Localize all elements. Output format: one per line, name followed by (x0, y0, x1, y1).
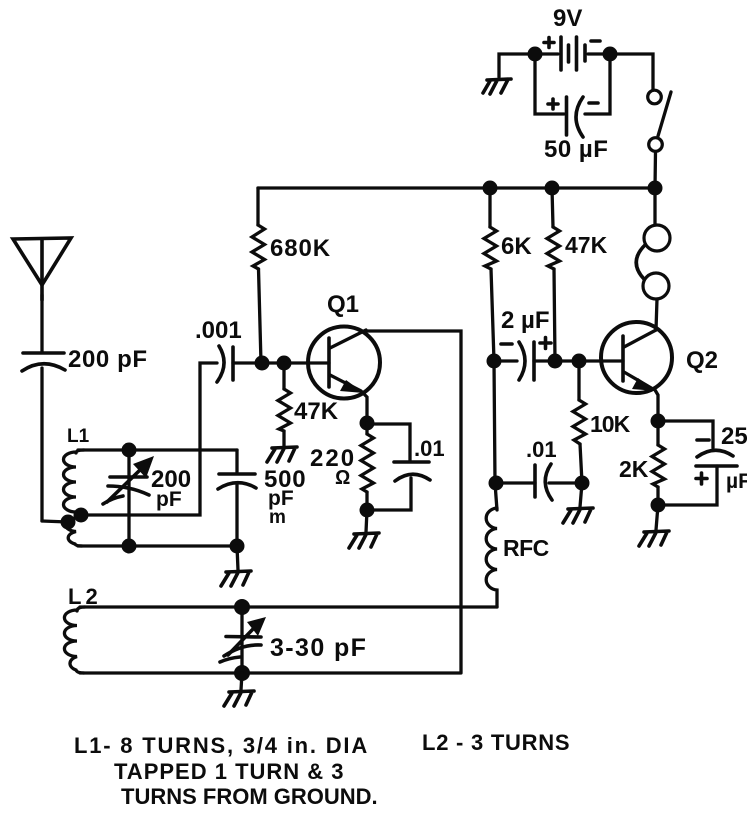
wire to ground below 500pF (237, 546, 238, 570)
wire L1 bottom (78, 544, 237, 547)
transistor Q2 (601, 322, 672, 393)
resistor 2K (652, 421, 665, 505)
node Q2 emitter (651, 414, 666, 429)
svg-text:6K: 6K (501, 233, 532, 260)
ground below trimmer (224, 691, 254, 706)
ground battery (483, 79, 511, 94)
svg-text:2 µF: 2 µF (501, 307, 550, 334)
node tap upper (74, 508, 89, 523)
node base 680K (255, 356, 270, 371)
resistor 47K base Q1 (278, 363, 291, 446)
ground below 220 (349, 533, 379, 548)
node trimmer top (234, 599, 250, 615)
node emitter top (360, 416, 375, 431)
node base 47K (277, 356, 292, 371)
svg-text:Q1: Q1 (327, 291, 359, 318)
wire to ground 10K (580, 483, 582, 507)
ground below 2K (639, 531, 669, 546)
resistor 6K (484, 188, 497, 361)
svg-text:25: 25 (721, 423, 747, 450)
wire trimmer to ground (241, 673, 242, 690)
svg-text:pF: pF (156, 488, 182, 511)
wire Q2 emitter (655, 390, 658, 421)
svg-text:3-30 pF: 3-30 pF (270, 634, 367, 662)
node L1 top / varcap (122, 443, 137, 458)
svg-text:50 µF: 50 µF (544, 136, 608, 163)
node RFC top (489, 476, 504, 491)
resistor 10K (573, 361, 586, 483)
svg-text:680K: 680K (270, 235, 331, 262)
transistor Q1 (308, 327, 380, 399)
wire battery left to ground (499, 54, 534, 77)
svg-text:.001: .001 (195, 317, 242, 344)
svg-text:L1- 8 TURNS, 3/4 in. DIA: L1- 8 TURNS, 3/4 in. DIA (74, 733, 369, 758)
svg-text:2K: 2K (619, 456, 649, 482)
node 500pF bottom (230, 539, 245, 554)
inductor L1 (64, 450, 85, 546)
svg-text:10K: 10K (590, 411, 631, 437)
wire Q1 emitter (362, 392, 367, 423)
wire main supply rail (258, 186, 655, 189)
wire L1 top (78, 448, 237, 451)
resistor R 680K (252, 188, 265, 363)
svg-text:m: m (269, 507, 286, 528)
node L1 bottom / varcap (122, 539, 137, 554)
phones jack circles (636, 195, 670, 299)
svg-text:.01: .01 (526, 437, 557, 462)
ground below 10K (563, 508, 593, 523)
node base Q2 47K (548, 354, 563, 369)
svg-text:TURNS FROM GROUND.: TURNS FROM GROUND. (121, 784, 378, 809)
node rail phones (648, 181, 663, 196)
switch S1 (648, 90, 671, 188)
resistor 47K right (547, 188, 560, 361)
wire Q2 collector to phones (656, 299, 657, 330)
wire tap to .001 (81, 363, 217, 515)
node 2K bottom (651, 498, 666, 513)
node emitter bottom (360, 503, 375, 518)
svg-text:Ω: Ω (335, 467, 350, 489)
capacitor .01 detector (496, 464, 582, 500)
svg-text:200 pF: 200 pF (68, 346, 148, 373)
node tap lower (61, 515, 76, 530)
svg-text:TAPPED 1 TURN & 3: TAPPED 1 TURN & 3 (114, 759, 345, 784)
svg-text:L2 - 3 TURNS: L2 - 3 TURNS (422, 730, 570, 755)
svg-text:L1: L1 (67, 426, 90, 447)
wire 6K down to RFC (494, 361, 497, 510)
capacitor 500pF (218, 450, 256, 546)
capacitor C .001 (217, 346, 309, 382)
inductor RFC (486, 508, 497, 607)
svg-text:Q2: Q2 (686, 347, 718, 374)
ground below 500pF (221, 571, 251, 586)
svg-text:µF: µF (726, 470, 747, 493)
wire to ground 2K (656, 505, 658, 530)
node 2uF left (487, 354, 502, 369)
svg-text:L2: L2 (68, 584, 102, 609)
wire L2 bottom (80, 671, 461, 674)
capacitor 2uF (494, 338, 555, 381)
node battery left (528, 47, 543, 62)
svg-text:.01: .01 (414, 436, 445, 461)
capacitor 200pF antenna (22, 353, 65, 521)
node rail 47K (545, 181, 560, 196)
wire battery right to switch (610, 54, 653, 90)
node rail 6K (483, 181, 498, 196)
ground below 47K (267, 447, 297, 462)
svg-text:47K: 47K (565, 232, 608, 258)
battery B1 (541, 37, 604, 70)
capacitor .01 emitter bypass (367, 424, 430, 510)
resistor 220 ohm (361, 423, 374, 510)
svg-text:9V: 9V (553, 5, 582, 32)
node trimmer bottom (234, 665, 250, 681)
wire Q1 collector feedback (366, 331, 461, 672)
variable capacitor 200pF (103, 450, 154, 546)
wire base Q2 (555, 359, 623, 362)
antenna (13, 238, 71, 352)
node base Q2 10K (572, 354, 587, 369)
wire to ground Q1 emitter (366, 510, 367, 532)
node 10K bottom (575, 476, 590, 491)
capacitor 25uF (658, 421, 737, 505)
wire antenna to L1 tap (42, 521, 68, 522)
inductor L2 (64, 607, 85, 673)
svg-text:RFC: RFC (503, 535, 549, 561)
trimmer capacitor 3-30pF (220, 607, 266, 673)
node battery right (603, 47, 618, 62)
capacitor C 50uF (535, 60, 610, 137)
svg-text:47K: 47K (294, 398, 339, 425)
wire L2 top (80, 605, 497, 608)
